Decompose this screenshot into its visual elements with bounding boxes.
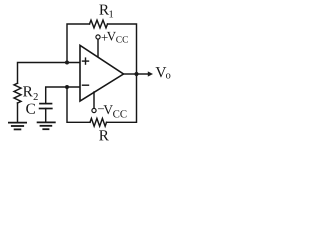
op-amp U1 — [80, 45, 124, 101]
wire inverting input — [46, 87, 80, 103]
ground under C — [38, 122, 55, 129]
label R2 — [23, 86, 38, 100]
node A junction dot — [65, 61, 69, 65]
ground under R2 — [9, 123, 26, 130]
label Vo — [156, 67, 171, 78]
wire bottom feedback left vertical — [67, 87, 90, 122]
node output junction dot — [134, 72, 138, 76]
label +Vcc plus sign — [102, 35, 108, 41]
label R — [99, 130, 109, 140]
capacitor C — [40, 104, 52, 109]
resistor R1 — [90, 20, 108, 28]
wire +Vcc pin — [97, 39, 99, 56]
label -Vcc minus sign — [98, 107, 104, 110]
label -Vcc — [103, 105, 126, 117]
label C — [26, 104, 35, 114]
wire C to ground — [45, 109, 47, 122]
label R1 — [99, 5, 113, 18]
arrowhead output — [148, 71, 153, 76]
resistor R2 — [14, 83, 21, 103]
wire top feedback left vertical — [67, 24, 90, 63]
terminal +Vcc circle — [96, 35, 100, 39]
wire output — [124, 73, 137, 75]
resistor R — [90, 118, 107, 126]
label +Vcc — [107, 32, 128, 43]
wire R2 to ground — [17, 103, 19, 122]
wire noninverting input — [18, 63, 81, 84]
wire output arrow shaft — [137, 73, 149, 75]
wire bottom feedback right vertical — [107, 76, 137, 122]
node B junction dot — [65, 85, 69, 89]
op-amp plus input sign — [83, 58, 89, 64]
wire top feedback right — [108, 24, 137, 72]
op-amp minus input sign — [83, 84, 89, 86]
wire -Vcc pin — [93, 92, 95, 108]
terminal -Vcc circle — [92, 108, 96, 112]
